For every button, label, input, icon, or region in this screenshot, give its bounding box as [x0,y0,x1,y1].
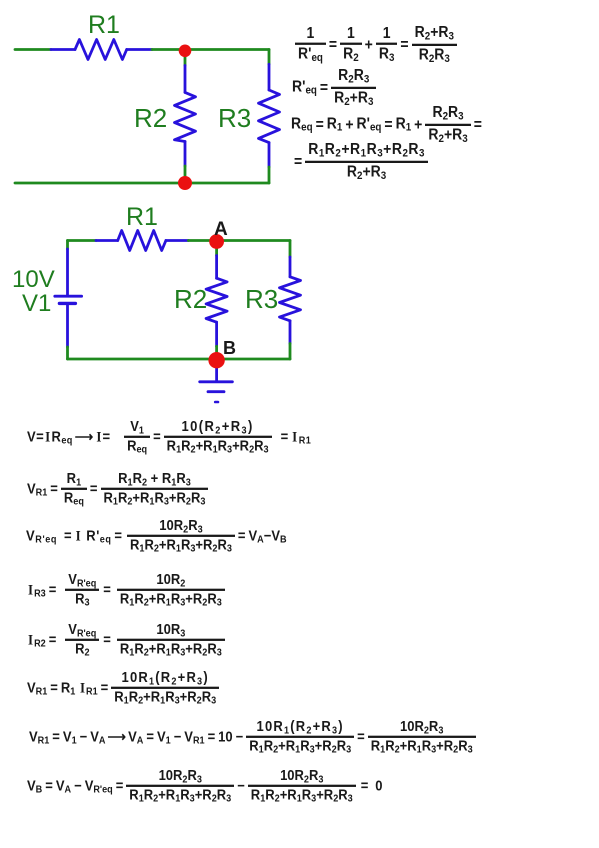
svg-text:R1: R1 [88,11,120,39]
svg-text:R2: R2 [174,284,207,314]
svg-text:R1: R1 [126,203,158,231]
svg-text:B: B [223,338,236,358]
svg-text:10V: 10V [12,266,55,293]
svg-text:A: A [214,219,228,240]
svg-text:V1: V1 [22,290,51,317]
svg-text:R2: R2 [134,103,167,133]
svg-text:R3: R3 [245,284,278,314]
svg-text:R3: R3 [218,103,251,133]
